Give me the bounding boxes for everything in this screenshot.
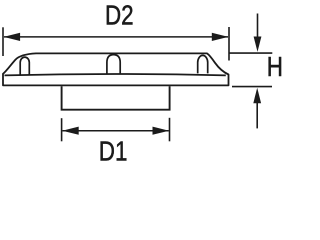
arrow H up (256, 102, 258, 128)
arrowhead D2 right (212, 33, 229, 41)
extension line D1 left (61, 118, 63, 141)
svg-text:D1: D1 (99, 136, 128, 167)
stem (fitting) (62, 86, 170, 110)
bump left (20, 57, 29, 74)
svg-text:H: H (267, 52, 283, 83)
extension line H bottom (232, 86, 272, 88)
extension line D2 left (2, 27, 4, 56)
arrowhead D1 right (153, 127, 170, 135)
label D1 (99, 136, 128, 167)
bump center (107, 55, 120, 74)
extension line D2 right (228, 27, 230, 61)
dimension line D2 (4, 36, 228, 38)
label D2 (105, 0, 134, 31)
extension line D1 right (169, 118, 171, 142)
arrowhead D1 left (62, 127, 78, 135)
rim top edge line (5, 74, 226, 75)
dimension line D1 (62, 130, 168, 132)
bump right (198, 55, 208, 73)
label H (267, 52, 283, 83)
part outline (cup profile) (3, 53, 229, 85)
arrowhead D2 left (4, 33, 21, 41)
svg-text:D2: D2 (105, 0, 134, 31)
extension line H top (229, 52, 273, 54)
arrow H down (257, 14, 259, 38)
